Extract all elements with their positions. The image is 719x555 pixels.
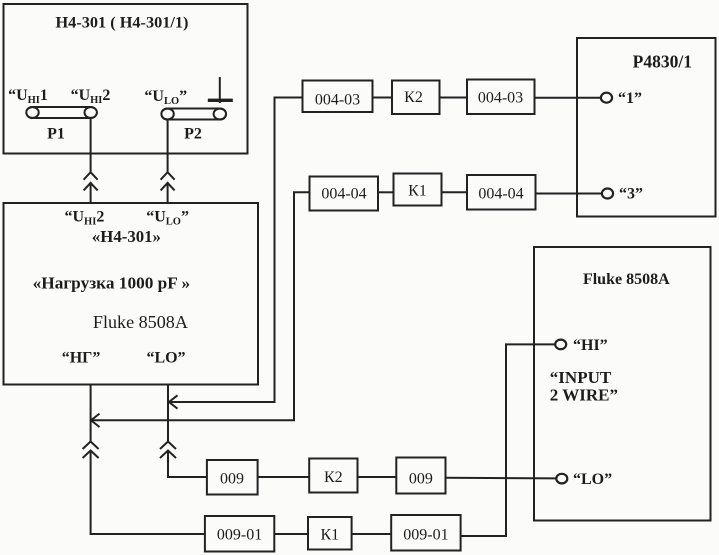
svg-text:004-03: 004-03 bbox=[478, 90, 523, 107]
wire K2 to 009 right bbox=[358, 476, 397, 478]
svg-text:«Н4-301»: «Н4-301» bbox=[92, 227, 161, 246]
wire 004-03 to terminal 1 bbox=[535, 97, 602, 99]
wire K1 to 009-01 right bbox=[352, 533, 392, 535]
svg-text:Р2: Р2 bbox=[184, 126, 202, 143]
svg-text:009: 009 bbox=[409, 471, 433, 488]
wire K2 to 004-03 bbox=[440, 97, 467, 99]
device box P4830/1 bbox=[577, 38, 716, 217]
svg-text:2 WIRE”: 2 WIRE” bbox=[550, 386, 618, 405]
svg-text:“3”: “3” bbox=[619, 186, 643, 203]
svg-text:“HI”: “HI” bbox=[573, 337, 608, 354]
device box H4-301 bbox=[4, 4, 248, 154]
svg-text:004-04: 004-04 bbox=[321, 186, 366, 203]
wire row2 004-04 to K1 bbox=[378, 191, 394, 193]
relay box K1 top bbox=[394, 174, 442, 206]
relay box K1 bottom bbox=[308, 517, 352, 550]
wire ULO down to load box bbox=[167, 120, 169, 172]
wire row1 left down to LO wire bbox=[170, 98, 303, 403]
arrowhead into NG wire bbox=[91, 414, 100, 427]
svg-text:К2: К2 bbox=[324, 469, 343, 486]
svg-text:009-01: 009-01 bbox=[403, 527, 448, 544]
connector chevron on UHI2 wire bbox=[84, 172, 98, 190]
cable box 004-04 right bbox=[467, 175, 536, 210]
terminal circle 1 bbox=[601, 93, 612, 103]
cable box 004-03 right bbox=[467, 80, 535, 115]
svg-text:Fluke 8508A: Fluke 8508A bbox=[583, 271, 670, 288]
ground bbox=[208, 77, 233, 103]
jumper P2 bbox=[161, 109, 226, 120]
svg-text:К1: К1 bbox=[408, 183, 427, 200]
wire K1 to 004-04 bbox=[442, 191, 468, 193]
svg-text:“LO”: “LO” bbox=[146, 350, 185, 367]
wire NG down to 009-01 row bbox=[90, 385, 92, 442]
svg-text:004-04: 004-04 bbox=[478, 186, 523, 203]
label INPUT 2 WIRE bbox=[550, 368, 618, 405]
cable box 004-03 left bbox=[303, 81, 373, 113]
svg-text:“1”: “1” bbox=[618, 90, 642, 107]
connector chevron on LO wire bbox=[160, 442, 176, 459]
arrowhead into LO wire bbox=[169, 395, 178, 408]
svg-text:К1: К1 bbox=[320, 527, 339, 544]
svg-text:«Нагрузка 1000 pF »: «Нагрузка 1000 pF » bbox=[33, 274, 191, 293]
svg-text:“НГ”: “НГ” bbox=[62, 350, 101, 367]
wire HI to 009-01 row bbox=[461, 344, 556, 536]
connector chevron on ULO wire bbox=[161, 172, 175, 190]
relay box K2 bottom bbox=[309, 459, 357, 493]
wire LO down to 009 row bbox=[167, 385, 169, 442]
wire 004-04 to terminal 3 bbox=[536, 193, 603, 195]
terminal circle LO bbox=[556, 474, 567, 484]
cable box 009-01 right bbox=[391, 515, 460, 551]
svg-text:“INPUT: “INPUT bbox=[550, 368, 612, 387]
jumper P1 bbox=[26, 107, 97, 118]
wire 004-03 to K2 bbox=[373, 97, 393, 99]
wire UHI2 down to load box bbox=[90, 118, 92, 172]
svg-text:“LO”: “LO” bbox=[573, 471, 612, 488]
terminal circle 3 bbox=[602, 189, 613, 199]
wire row2 left down to NG wire bbox=[92, 192, 310, 420]
cable box 009 right bbox=[396, 458, 445, 494]
svg-text:009-01: 009-01 bbox=[217, 527, 262, 544]
svg-text:Fluke 8508A: Fluke 8508A bbox=[93, 312, 188, 332]
relay box K2 top bbox=[392, 81, 440, 115]
wire 009 to K2 bbox=[258, 476, 310, 478]
wire 009-01 to K1 bbox=[274, 533, 308, 535]
svg-text:004-03: 004-03 bbox=[315, 92, 360, 109]
terminal circle HI bbox=[555, 340, 566, 350]
svg-text:Р4830/1: Р4830/1 bbox=[633, 52, 692, 72]
device box Fluke 8508A bbox=[534, 247, 711, 521]
cable box 009-01 left bbox=[205, 516, 274, 552]
wire 009 to LO terminal bbox=[446, 477, 557, 480]
cable box 009 left bbox=[207, 460, 258, 495]
svg-text:К2: К2 bbox=[404, 89, 423, 106]
connector chevron on NG wire bbox=[83, 442, 99, 459]
cable box 004-04 left bbox=[310, 177, 379, 211]
svg-text:Р1: Р1 bbox=[47, 126, 65, 143]
svg-text:Н4-301 ( Н4-301/1): Н4-301 ( Н4-301/1) bbox=[56, 13, 189, 32]
device box load Nagruzka bbox=[4, 203, 259, 385]
svg-text:009: 009 bbox=[220, 471, 244, 488]
